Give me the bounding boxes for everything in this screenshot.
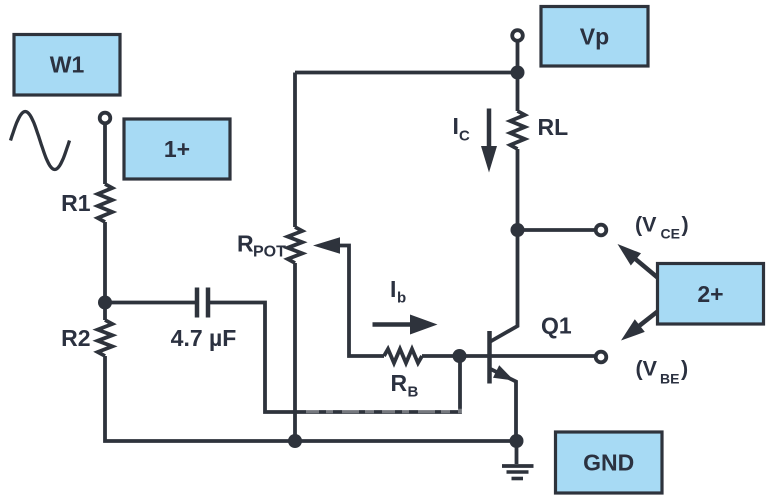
svg-text:Vp: Vp	[580, 24, 609, 50]
svg-text:POT: POT	[253, 244, 286, 261]
svg-text:1+: 1+	[164, 136, 190, 162]
svg-text:): )	[682, 213, 689, 237]
svg-text:I: I	[453, 113, 459, 139]
svg-text:RL: RL	[538, 114, 569, 140]
svg-text:CE: CE	[661, 226, 680, 242]
svg-text:I: I	[390, 276, 396, 302]
svg-text:C: C	[459, 128, 470, 145]
svg-text:GND: GND	[583, 450, 634, 476]
svg-text:W1: W1	[50, 52, 85, 78]
svg-text:R1: R1	[61, 190, 91, 216]
svg-text:2+: 2+	[697, 281, 723, 307]
svg-text:): )	[681, 357, 688, 381]
svg-text:(V: (V	[636, 357, 658, 381]
svg-text:(V: (V	[635, 213, 657, 237]
svg-text:BE: BE	[660, 371, 679, 387]
svg-text:R: R	[237, 230, 254, 256]
svg-text:B: B	[408, 384, 419, 401]
svg-text:R: R	[391, 370, 408, 396]
svg-text:4.7 µF: 4.7 µF	[171, 325, 237, 351]
svg-text:R2: R2	[61, 325, 90, 351]
svg-text:Q1: Q1	[541, 313, 572, 339]
svg-text:b: b	[397, 290, 406, 307]
